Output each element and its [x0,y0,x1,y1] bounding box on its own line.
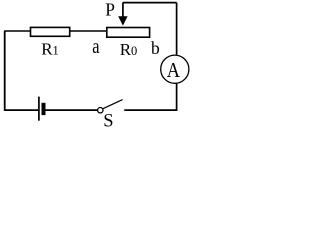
wire slider top horizontal [123,2,177,4]
switch pivot [98,108,103,113]
wire left vertical [4,31,6,111]
svg-text:A: A [167,59,181,83]
wire ammeter bottom to corner [176,83,178,111]
switch lever [103,100,123,109]
svg-text:R1: R1 [41,40,59,59]
rheostat R0 [107,28,150,38]
wire bottom right segment (switch to corner) [124,109,177,111]
ammeter A [161,55,189,83]
wire R1 to R0 [70,30,107,32]
resistor R1 [31,27,70,36]
svg-text:S: S [103,112,113,129]
wire bottom left segment (left corner to battery) [4,109,38,111]
svg-text:a: a [92,35,100,58]
slider wiper arrow [122,3,124,20]
battery positive plate (long thin) [38,97,40,121]
svg-text:R0: R0 [120,40,138,59]
wire right vertical to ammeter [176,3,178,55]
wire top-left horizontal to R1 [4,30,31,32]
wire battery to switch [46,109,98,111]
svg-text:P: P [105,0,115,19]
svg-text:b: b [151,38,160,58]
battery negative plate (short thick) [42,103,46,115]
